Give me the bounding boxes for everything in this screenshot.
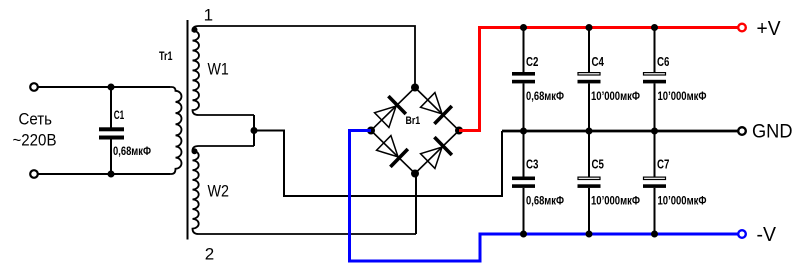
node bridge bottom [411,170,419,178]
diode D lower-left [375,134,408,167]
capacitor C4 (electrolytic) [578,28,601,132]
polarity dot W1 [192,27,198,33]
svg-text:2: 2 [205,245,214,264]
node GND rail x589 [586,128,593,135]
capacitor C2 [512,28,535,132]
diode D upper-right [419,91,452,124]
svg-text:W1: W1 [208,60,229,79]
svg-text:GND: GND [752,121,793,143]
capacitor C5 (electrolytic) [578,131,601,234]
node -V rail x523 [520,231,527,238]
wire input bottom [39,173,171,175]
diode D lower-right [419,137,452,170]
polarity dot W2 [192,148,198,154]
node bridge left [367,127,375,135]
svg-text:0,68мкФ: 0,68мкФ [113,146,151,158]
wire -V (blue) [350,131,738,262]
bridge Br1 diamond [371,88,459,174]
wire input top [39,86,171,88]
svg-text:10’000мкФ: 10’000мкФ [591,91,640,103]
node GND rail x523 [520,128,527,135]
diode D upper-left [373,96,406,129]
svg-text:C4: C4 [592,55,604,69]
capacitor C3 [512,131,535,234]
node GND rail x654 [651,128,658,135]
node -V rail x589 [586,231,593,238]
secondary winding W1 (incl. wire to bridge top) [193,26,416,115]
svg-text:Сеть: Сеть [19,110,53,129]
node +V rail x654 [651,24,658,31]
svg-text:10’000мкФ: 10’000мкФ [658,91,707,103]
input terminal bottom [30,170,38,178]
svg-text:1: 1 [204,6,213,25]
svg-text:Br1: Br1 [406,115,421,127]
wire bridge bottom to pin-2 wire [415,174,417,235]
capacitor C6 (electrolytic) [643,28,666,132]
svg-text:0,68мкФ: 0,68мкФ [526,196,564,208]
node +V rail x589 [586,24,593,31]
svg-text:-V: -V [757,223,777,246]
terminal GND [738,127,746,135]
svg-text:0,68мкФ: 0,68мкФ [526,91,564,103]
svg-text:+V: +V [757,17,781,40]
transformer Tr1 : primary winding [39,87,182,174]
node center tap [251,127,258,134]
capacitor C1 [99,87,124,174]
svg-text:C7: C7 [657,158,669,172]
node -V rail x654 [651,231,658,238]
secondary winding W2 (incl. pin-2 wire) [193,146,417,234]
transformer core [187,20,189,240]
node input bottom [108,171,115,178]
node input top [108,84,115,91]
terminal -V [738,230,746,238]
svg-text:10’000мкФ: 10’000мкФ [591,196,640,208]
terminal +V [738,24,746,32]
svg-text:C3: C3 [526,158,538,172]
svg-text:C1: C1 [114,108,125,122]
input terminal top [30,83,38,91]
svg-text:Tr1: Tr1 [159,49,173,63]
svg-text:10’000мкФ: 10’000мкФ [658,196,707,208]
node bridge right [455,127,463,135]
node bridge top [411,84,419,92]
svg-text:C2: C2 [526,55,538,69]
svg-text:W2: W2 [208,182,230,201]
GND rail [502,130,738,133]
node +V rail x523 [520,24,527,31]
svg-text:~220В: ~220В [13,131,57,150]
capacitor C7 (electrolytic) [643,131,666,234]
wire +V (red) [459,28,738,131]
center tap wire from W1/W2 [253,115,255,146]
svg-text:C6: C6 [657,55,669,69]
wire center tap to GND rail [254,131,502,197]
svg-text:C5: C5 [592,158,604,172]
